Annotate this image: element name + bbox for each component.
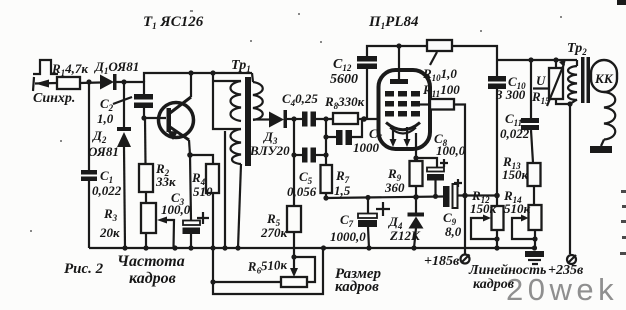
pointer R10	[430, 52, 437, 65]
node junction after R1	[86, 79, 91, 84]
capacitor C5	[294, 154, 302, 156]
svg-text:360: 360	[384, 180, 405, 195]
resistor R4	[206, 164, 219, 193]
paper specks	[30, 10, 562, 232]
wire D1 to C2 corner	[116, 82, 144, 94]
resistor R5	[287, 206, 301, 232]
svg-text:R11100: R11100	[422, 82, 460, 99]
svg-text:+185в: +185в	[424, 254, 460, 269]
wire R4 to rail	[212, 193, 214, 248]
svg-text:Z12К: Z12К	[389, 228, 421, 243]
svg-text:0,022: 0,022	[500, 126, 530, 141]
capacitor C9 electrolytic	[443, 186, 450, 207]
svg-text:Д1ОЯ81: Д1ОЯ81	[94, 59, 139, 76]
svg-text:ОЯ81: ОЯ81	[88, 144, 119, 159]
svg-text:1,5: 1,5	[334, 183, 351, 198]
node collector rail dot	[188, 70, 193, 75]
svg-text:кадров: кадров	[335, 279, 379, 295]
tube anode	[390, 79, 408, 84]
svg-text:Тр1: Тр1	[231, 58, 251, 74]
capacitor C8	[427, 168, 444, 172]
resistor R11	[430, 99, 454, 110]
svg-text:150к: 150к	[502, 167, 529, 182]
svg-text:С7: С7	[340, 212, 354, 229]
svg-text:R14,7к: R14,7к	[51, 61, 88, 78]
svg-text:R3: R3	[103, 206, 118, 223]
wire top rail left	[144, 73, 252, 82]
potentiometer R6	[290, 268, 298, 277]
wire emitter to C3	[190, 155, 191, 220]
svg-text:Тр2: Тр2	[567, 41, 587, 57]
svg-text:ВЛУ20: ВЛУ20	[249, 143, 290, 158]
zener diode Д4	[415, 197, 417, 213]
svg-text:1000: 1000	[353, 140, 380, 155]
svg-text:П1PL84: П1PL84	[368, 14, 419, 31]
wire top right feed	[497, 59, 577, 61]
svg-text:33к: 33к	[155, 174, 176, 189]
diode Д3	[269, 112, 284, 128]
tube cathode arc	[386, 123, 420, 130]
diode Д2	[123, 82, 125, 127]
wire cathode to C8	[416, 158, 437, 168]
right edge marks	[620, 190, 626, 255]
svg-text:Частота: Частота	[117, 253, 185, 270]
resistor R3 potentiometer	[141, 203, 156, 233]
svg-text:1,0: 1,0	[97, 111, 114, 126]
capacitor C7	[367, 198, 369, 215]
svg-text:1000,0: 1000,0	[330, 229, 366, 244]
tube grid rows	[385, 91, 420, 117]
terminal +235в	[567, 255, 576, 264]
svg-text:510: 510	[193, 184, 213, 199]
resistor R9	[410, 161, 423, 186]
tube Л1 envelope	[379, 70, 431, 149]
wire cathode down	[415, 133, 417, 161]
capacitor C10	[488, 76, 506, 82]
resistor R13	[528, 163, 541, 186]
svg-text:КК: КК	[594, 71, 614, 86]
svg-text:U: U	[536, 73, 546, 88]
transistor T1	[159, 97, 194, 140]
resistor R2	[139, 164, 153, 192]
ground right	[525, 251, 544, 257]
svg-text:20к: 20к	[99, 225, 120, 240]
svg-text:R15: R15	[531, 89, 550, 106]
transformer Тр2 primary	[576, 60, 578, 66]
svg-text:150к: 150к	[470, 201, 497, 216]
capacitor C1	[88, 82, 90, 170]
potentiometer R12	[492, 206, 504, 230]
wire emitter down	[189, 140, 190, 155]
tube heater arrows	[393, 127, 407, 140]
svg-text:Д2: Д2	[92, 128, 107, 145]
node rail dot x213	[210, 70, 215, 75]
potentiometer R14	[529, 205, 542, 230]
node emitter junction	[187, 152, 193, 158]
svg-text:0,022: 0,022	[92, 183, 122, 198]
node junction D1 cathode	[121, 79, 126, 84]
wire ground rail bottom	[89, 247, 534, 249]
wire base	[144, 117, 166, 119]
svg-text:100,0: 100,0	[161, 202, 191, 217]
capacitor C4	[302, 112, 308, 127]
wire R2 to R3	[145, 192, 147, 203]
resistor R10	[427, 40, 452, 51]
wire emitter to R4	[190, 155, 213, 164]
capacitor C12	[366, 68, 368, 119]
svg-text:Синхр.: Синхр.	[33, 91, 75, 106]
svg-text:кадров: кадров	[473, 277, 515, 292]
svg-text:100,0: 100,0	[436, 143, 466, 158]
svg-text:3 300: 3 300	[495, 87, 526, 102]
resistor R8	[333, 113, 358, 124]
svg-text:С12: С12	[333, 57, 352, 73]
svg-text:R8330к: R8330к	[324, 94, 365, 111]
wire R1 to D1	[80, 81, 100, 84]
svg-text:С40,25: С40,25	[282, 91, 318, 108]
svg-text:0,056: 0,056	[287, 184, 317, 199]
coil КК	[591, 60, 617, 92]
svg-text:Линейность: Линейность	[468, 263, 546, 278]
capacitor C6	[326, 136, 336, 138]
svg-text:+235в: +235в	[548, 263, 584, 278]
wire collector up	[190, 73, 192, 97]
wire C9 to R12 node	[458, 194, 498, 196]
node Синхр input tick	[33, 77, 34, 91]
svg-text:кадров: кадров	[129, 270, 176, 287]
transformer Тр2 core	[581, 57, 585, 103]
svg-text:Рис. 2: Рис. 2	[64, 261, 104, 277]
wire R5 column	[293, 119, 295, 206]
node base junction	[141, 115, 146, 120]
top right corner mark	[617, 0, 626, 5]
svg-text:R101,0: R101,0	[422, 66, 457, 83]
wire grid column x326	[325, 119, 327, 165]
svg-text:270к: 270к	[260, 225, 288, 240]
svg-text:Т1 ЯС126: Т1 ЯС126	[143, 14, 204, 31]
sync pulse symbol	[33, 60, 58, 74]
resistor R7	[321, 165, 333, 193]
terminal +185в	[461, 255, 470, 264]
wire base to R2	[144, 118, 147, 164]
resistor R1	[57, 77, 80, 89]
capacitor C3	[183, 221, 200, 226]
varistor R15	[549, 68, 563, 99]
svg-text:510к: 510к	[504, 201, 531, 216]
wire input with arrow	[35, 82, 57, 85]
diode Д1	[100, 75, 114, 90]
svg-text:5600: 5600	[330, 72, 358, 87]
ground Тр2	[590, 146, 612, 153]
capacitor C11	[530, 60, 532, 118]
svg-text:R6510к: R6510к	[246, 257, 288, 276]
svg-text:8,0: 8,0	[445, 224, 462, 239]
wire screen grid	[420, 103, 430, 105]
capacitor C2	[134, 94, 153, 100]
transformer Тр1	[213, 73, 269, 251]
wire rail M	[326, 197, 443, 199]
